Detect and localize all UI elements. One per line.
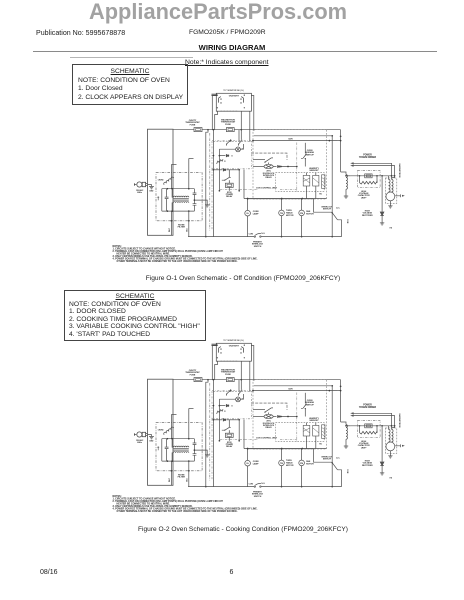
oven schematic figure O-1 (off condition) (113, 90, 405, 263)
schematic condition box 1 (72, 64, 188, 105)
rule above condition box (70, 56, 193, 59)
schematic condition box 2 (64, 290, 206, 341)
note indicates component (185, 59, 269, 66)
publication number (36, 29, 125, 37)
oven schematic figure O-2 (cooking condition) (113, 340, 405, 513)
watermark AppliancePartsPros.com (89, 0, 347, 25)
title rule (33, 51, 437, 52)
model numbers (189, 29, 266, 36)
footer page 6 (230, 569, 234, 576)
footer date 08/16 (40, 569, 58, 576)
title WIRING DIAGRAM (0, 43, 464, 52)
caption figure O-2 (11, 526, 464, 533)
caption figure O-1 (11, 275, 464, 282)
